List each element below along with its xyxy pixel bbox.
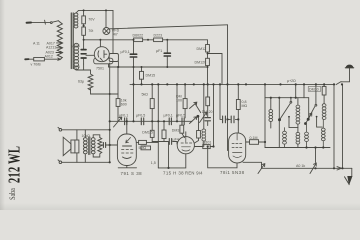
- wire between resistors: [83, 24, 85, 27]
- svg-text:1,5: 1,5: [151, 161, 156, 165]
- cap C4a plates: [125, 118, 127, 125]
- bus dot 7: [193, 83, 195, 85]
- wire down right corner: [351, 168, 353, 176]
- wire y98 corner down: [308, 98, 310, 118]
- coil LC2 loops: [305, 125, 309, 148]
- coil LC lower loops: [296, 132, 300, 144]
- heater line end vertical: [112, 10, 114, 53]
- svg-text:DM15: DM15: [146, 74, 156, 78]
- svg-text:DM12: DM12: [197, 47, 207, 51]
- osc coil L3 loops: [202, 129, 206, 141]
- node dot dm branch: [207, 53, 209, 55]
- wire tube to y67: [109, 62, 119, 68]
- node dot cathode loop: [167, 167, 169, 169]
- pot wiper v3: [258, 164, 265, 174]
- wire v1 gridbox down: [157, 84, 159, 167]
- bus dot 12: [226, 83, 228, 85]
- grid cap row v3 wire: [220, 84, 238, 119]
- wire resistor to cap stack: [83, 35, 85, 49]
- node dot heater line b: [105, 9, 107, 11]
- band switch contact a: [290, 101, 292, 103]
- SECTION: labels B+: [121, 34, 207, 78]
- node dot pot x342: [341, 167, 343, 169]
- wire drop to resistors: [83, 10, 85, 16]
- wire DM120 down to bus: [207, 66, 209, 85]
- anode stopper box: [203, 145, 210, 149]
- cap C5 wire: [152, 139, 177, 144]
- speaker bottom terminal: [59, 161, 62, 164]
- cap C1 plates: [130, 54, 136, 57]
- speaker body divider: [74, 140, 76, 153]
- svg-text:Saba: Saba: [7, 188, 17, 200]
- bus dot 19: [315, 83, 317, 85]
- SECTION: right labels: [220, 79, 321, 175]
- rectifier inner electrodes: [98, 51, 107, 61]
- transformer core lines: [89, 137, 90, 155]
- wire bottom winding stub: [76, 64, 90, 74]
- svg-text:µF03: µF03: [72, 44, 80, 48]
- tube V3 cathode line: [243, 162, 262, 168]
- svg-text:DM10: DM10: [309, 88, 319, 92]
- cap C6b plates: [182, 118, 184, 125]
- resistor box x208: [206, 97, 210, 106]
- speaker wiring: [77, 130, 100, 163]
- pot wiper right: [310, 163, 316, 173]
- node dot v2 anode: [212, 145, 214, 147]
- trunk wire x110: [109, 63, 111, 162]
- node dot y98 a: [278, 97, 280, 99]
- svg-text:µF0,5: µF0,5: [136, 114, 145, 118]
- resistor D223: [154, 38, 163, 42]
- svg-text:REN 9i4: REN 9i4: [185, 170, 203, 175]
- cap C2 drop wire: [166, 40, 168, 67]
- tap terminal dash: [25, 58, 28, 60]
- svg-text:A0 1k: A0 1k: [296, 164, 305, 168]
- tube V3 inner top wire: [236, 133, 238, 140]
- svg-text:70V: 70V: [88, 18, 95, 22]
- bus dot 4: [166, 83, 168, 85]
- switch link dot a: [288, 116, 290, 118]
- svg-text:MΩ: MΩ: [242, 104, 248, 108]
- choke L2 (zigzag): [88, 74, 93, 90]
- SECTION: labels power: [31, 18, 120, 84]
- node dot y67 tube: [117, 66, 119, 68]
- node dot y67 d: [166, 66, 168, 68]
- svg-text:µF0,5: µF0,5: [176, 114, 185, 118]
- coil LD2 loops: [321, 120, 325, 148]
- band switch stub a: [290, 98, 292, 102]
- svg-text:A012: A012: [45, 54, 53, 58]
- antenna coil L1 primary (zigzag): [57, 22, 62, 60]
- svg-text:µ+2Ω: µ+2Ω: [287, 79, 296, 83]
- anode grid resistor box: [197, 131, 201, 139]
- resistor DM120 box: [206, 58, 210, 65]
- wire winding to heater line: [76, 10, 113, 13]
- grid resistor drop: [182, 125, 185, 138]
- cathode bypass drop: [168, 142, 170, 168]
- wire choke bottom to trunk: [91, 89, 119, 95]
- coil LC loops: [296, 105, 300, 124]
- svg-text:DM120: DM120: [195, 61, 207, 65]
- band switch blade c: [309, 106, 315, 118]
- osc coil bottom wire: [203, 141, 205, 147]
- dial lamp: [103, 28, 110, 35]
- svg-text:DM3: DM3: [172, 129, 180, 133]
- svg-text:µF0,1: µF0,1: [164, 114, 173, 118]
- node dot row2 a: [151, 120, 153, 122]
- node dot resistor mid: [83, 25, 85, 27]
- resistor DM10 drop: [323, 84, 325, 103]
- node dot v1 grid: [126, 120, 128, 122]
- direction arrow on line: [337, 167, 342, 170]
- svg-text:10kΩ: 10kΩ: [82, 134, 91, 138]
- osc coil drop: [203, 84, 205, 129]
- node dot heater line a: [83, 9, 85, 11]
- tube V1 top cap arrow: [126, 138, 131, 143]
- rectifier base tray: [94, 58, 113, 64]
- svg-text:µΩ01: µΩ01: [203, 140, 212, 144]
- dial lamp cross: [104, 29, 109, 34]
- tap arrow A017: [57, 42, 63, 44]
- svg-text:DM1,5: DM1,5: [142, 131, 153, 135]
- cap C7a plates: [223, 116, 226, 123]
- bus dot 3: [151, 83, 153, 85]
- svg-text:A1213: A1213: [46, 46, 56, 50]
- bus dot 3b: [157, 83, 159, 85]
- svg-text:791 S 38: 791 S 38: [121, 171, 143, 176]
- band switch vertical a: [278, 98, 280, 148]
- node dot trunk spk top: [109, 129, 111, 131]
- coil LA wire: [270, 98, 272, 128]
- resistor 5k drop: [151, 84, 153, 121]
- main bus (chassis): [130, 83, 335, 85]
- tube V1 grid wire top: [126, 121, 128, 134]
- svg-text:A 11: A 11: [33, 41, 40, 45]
- coil LD loops: [322, 104, 326, 120]
- anode grid resistor wire: [195, 118, 199, 144]
- svg-text:70t: 70t: [88, 29, 93, 33]
- resistor 10k/600 box: [116, 99, 120, 107]
- resistor 5k lower drop: [151, 121, 153, 141]
- resistor DM15 box: [140, 71, 144, 79]
- resistor R heater 2: [82, 27, 86, 35]
- band switch blade mid: [195, 104, 201, 113]
- resistor R heater 1: [82, 16, 86, 24]
- svg-text:78i1 5N38: 78i1 5N38: [220, 170, 245, 175]
- tube V1 inner grid dashes: [122, 150, 134, 154]
- node dot v3 grid: [237, 118, 239, 120]
- coil LB2 loops: [283, 128, 287, 148]
- node dot row x134: [132, 120, 134, 122]
- svg-text:5MΩ: 5MΩ: [139, 146, 147, 150]
- node dot y98 d: [290, 97, 292, 99]
- cap C6a plates: [169, 118, 171, 125]
- resistor DM1.5 drop: [163, 121, 165, 130]
- cap C1 drop wire: [133, 40, 135, 85]
- grid resistor box: [180, 125, 184, 133]
- tube V2 grid wire: [185, 132, 187, 137]
- svg-text:5kΩ: 5kΩ: [142, 93, 149, 97]
- tube V2 envelope: [177, 137, 194, 154]
- bus dot 13: [237, 83, 239, 85]
- tube V2 anode wire: [194, 146, 202, 148]
- node dot trunk spk bot: [109, 161, 111, 163]
- svg-text:600: 600: [121, 103, 127, 107]
- wire bus to row2 x177: [176, 84, 178, 121]
- rectifier tube U1 envelope: [94, 47, 109, 62]
- band switch blob mid: [197, 115, 200, 118]
- grid box lower: [141, 146, 151, 150]
- transformer secondary bottom winding: [74, 43, 78, 69]
- svg-text:100: 100: [176, 98, 182, 102]
- band switch blob c: [307, 118, 310, 121]
- node dot y40 a: [133, 39, 135, 41]
- switch link dot c: [316, 116, 318, 118]
- node dot coil line c: [322, 146, 324, 148]
- cap stack wire: [83, 59, 85, 64]
- wire bus drop x315: [315, 84, 317, 104]
- node dot choke trunk: [109, 93, 111, 95]
- band switch blade a: [280, 103, 290, 118]
- wire x213 from bus: [213, 84, 215, 146]
- resistor DM12 box: [206, 45, 210, 53]
- cap C7b plates: [231, 116, 234, 123]
- node dot row v3 mid: [226, 118, 228, 120]
- node dot v3 screen: [264, 141, 266, 143]
- bus dot 9: [207, 83, 209, 85]
- osc switch arrow: [200, 112, 207, 122]
- band switch arrow b: [305, 113, 312, 125]
- tube V3 inner dashes: [232, 144, 242, 158]
- speaker cone: [63, 137, 71, 155]
- B+ rail from lamp: [110, 25, 228, 29]
- rectifier side box: [109, 54, 118, 62]
- bus dot 15: [264, 83, 266, 85]
- output tube V1 envelope: [117, 134, 136, 166]
- bus dot 18: [303, 83, 305, 85]
- svg-text:D6022: D6022: [133, 34, 144, 38]
- bus dot 10: [212, 83, 214, 85]
- wire bus drop x304: [303, 84, 305, 97]
- output transformer primary: [83, 130, 87, 163]
- wire box to x213: [210, 146, 213, 148]
- resistor 0.8M box: [236, 100, 240, 110]
- node dot y67 e: [207, 66, 209, 68]
- transformer secondary top winding: [74, 13, 78, 28]
- svg-text:DM120: DM120: [202, 110, 213, 114]
- speaker top terminal: [59, 129, 62, 132]
- resistor D6022: [134, 38, 143, 42]
- antenna switch tick: [44, 20, 47, 24]
- tube V0 left lead: [86, 54, 96, 56]
- decoupling line y40: [84, 40, 208, 45]
- bus dot 8: [203, 83, 205, 85]
- cap x208 plates: [205, 118, 210, 121]
- bus dot 17: [295, 83, 297, 85]
- node dot pot x315: [314, 167, 316, 169]
- node dot y40 b: [147, 39, 149, 41]
- svg-text:µF0,1: µF0,1: [119, 114, 128, 118]
- bus dot 11: [219, 83, 221, 85]
- resistor DM chain x208 below bus: [207, 84, 209, 125]
- band switch blob b: [304, 122, 307, 125]
- winding tertiary zigzag: [98, 138, 102, 154]
- resistor 0.8M drop: [237, 84, 239, 132]
- tube V3 screen box: [246, 141, 265, 143]
- wire resistor drop x118: [117, 67, 119, 99]
- bus dot 1: [132, 83, 134, 85]
- coil bottoms line: [284, 147, 330, 149]
- speaker bottom line: [62, 161, 110, 163]
- svg-text:7501: 7501: [96, 67, 104, 71]
- big down arrow: [347, 176, 352, 186]
- wire bus to row x134: [133, 84, 135, 121]
- antenna switch contact: [50, 22, 52, 24]
- SECTION: labels if stage: [142, 93, 213, 176]
- node dot y40 anode: [99, 39, 101, 41]
- cap C4b plates: [141, 118, 143, 125]
- coil LC wire: [297, 98, 299, 148]
- grid wiper arrow b: [190, 117, 197, 124]
- cap stack plates: [81, 50, 86, 58]
- node dot pot x334: [333, 167, 335, 169]
- wire x265 down: [264, 98, 266, 148]
- bus dot 5: [176, 83, 178, 85]
- bus dot 14: [245, 83, 247, 85]
- trunk right x334: [333, 84, 335, 168]
- svg-text:v 70/B: v 70/B: [31, 63, 42, 67]
- node dot trunk row: [109, 120, 111, 122]
- bus dot 22: [341, 83, 343, 85]
- wire DM12 to DM120: [207, 52, 209, 58]
- wire drop to lamp: [105, 10, 107, 27]
- node dot row2 ab: [157, 120, 159, 122]
- line y67 screen feed: [109, 66, 208, 68]
- resistor DM100 box: [183, 99, 187, 109]
- anode feed drop: [99, 40, 101, 47]
- svg-text:µF4: µF4: [173, 138, 179, 142]
- aerial earth symbol: [345, 67, 353, 69]
- bus dot 16: [279, 83, 281, 85]
- resistor tap box: [34, 58, 45, 61]
- bus dot 21: [333, 83, 335, 85]
- antenna input wire: [27, 22, 50, 24]
- speaker top tick: [58, 127, 60, 128]
- node dot y40 start: [83, 39, 85, 41]
- tube V2 inner: [181, 137, 192, 151]
- bus dot 20: [323, 83, 325, 85]
- node dot y40 c: [166, 39, 168, 41]
- coil bottoms left wire: [265, 147, 284, 149]
- resistor DM10 box: [322, 86, 326, 95]
- tap arrow A1213: [57, 47, 63, 49]
- svg-text:µF8: µF8: [74, 65, 80, 69]
- output transformer secondary: [91, 138, 95, 154]
- bus dot 6: [184, 83, 186, 85]
- junction dots bus: [109, 83, 344, 169]
- box DM10 label: [308, 87, 321, 92]
- switch link wire a: [289, 117, 298, 128]
- node dot row2 c: [176, 120, 178, 122]
- branch wire to x222: [208, 54, 223, 85]
- resistor 5k box: [150, 99, 154, 109]
- svg-text:0,1M: 0,1M: [250, 136, 258, 140]
- node dot y67 a: [117, 66, 119, 68]
- tone cap to trunk: [100, 143, 110, 148]
- wire switch to coil: [59, 21, 60, 22]
- coil LA loops: [269, 109, 273, 121]
- junction dots top: [83, 9, 209, 95]
- cap C2 plates: [164, 53, 170, 56]
- resistor DM1.5 box: [162, 130, 166, 139]
- speaker bottom tick: [58, 160, 60, 161]
- coupling row 2 line: [152, 120, 192, 122]
- volume pot line: [262, 167, 352, 169]
- rail end drop x227: [227, 25, 229, 151]
- tap wire with resistor: [26, 58, 61, 60]
- node dot coil line a: [305, 146, 307, 148]
- bus dot 2: [140, 83, 142, 85]
- node dot y98 b: [295, 97, 297, 99]
- tube V3 envelope: [229, 133, 246, 163]
- coupling row line y121: [110, 120, 153, 122]
- node dot row2 b: [163, 120, 165, 122]
- node dot trunk anode: [109, 144, 111, 146]
- svg-text:µF0,1: µF0,1: [121, 50, 130, 54]
- antenna terminal dash: [27, 22, 31, 24]
- grid wiper arrow a: [190, 102, 197, 108]
- tube V1 grid cap box: [136, 141, 158, 143]
- resistor 5k lower box: [150, 130, 154, 137]
- pot wire from coils: [315, 148, 317, 163]
- bus switch tick: [336, 82, 341, 85]
- resistor DM100 drop: [184, 84, 186, 118]
- tube V1 anode stub: [110, 144, 118, 146]
- transformer core: [71, 13, 73, 69]
- svg-text:D223: D223: [154, 34, 163, 38]
- svg-text:715 H 38: 715 H 38: [163, 170, 184, 175]
- coil bank feed line: [265, 84, 309, 97]
- wire 10k bottom to node: [117, 106, 119, 121]
- SECTION: labels audio: [82, 99, 147, 177]
- tube V1 inner cathode: [123, 157, 132, 159]
- trunk right x342: [342, 84, 344, 168]
- band switch blob a: [278, 118, 281, 121]
- tap arrow A023: [56, 51, 63, 53]
- cap C5 plates: [169, 139, 171, 145]
- speaker coil body: [71, 140, 79, 153]
- tube V1 base line: [118, 166, 136, 168]
- tube V2 cathode loop: [158, 154, 186, 168]
- svg-text:4i7: 4i7: [113, 32, 118, 36]
- svg-text:µF1: µF1: [156, 49, 162, 53]
- node dot y67 c: [141, 66, 143, 68]
- svg-text:63µ: 63µ: [78, 80, 84, 84]
- band switch contact circle: [315, 104, 317, 106]
- resistor DM15 drop: [141, 67, 143, 84]
- wire bus drop x295: [295, 84, 297, 97]
- node dot y98 c: [270, 97, 272, 99]
- node dot coil line b: [314, 146, 316, 148]
- node dot y67 b: [133, 66, 135, 68]
- speaker top line: [62, 129, 110, 131]
- node dot anode junction: [207, 145, 209, 147]
- wire to aerial symbol: [341, 68, 350, 82]
- wire v2 anode to v3: [208, 147, 237, 168]
- svg-text:212 WL: 212 WL: [5, 146, 24, 183]
- switch link wire c: [317, 117, 323, 128]
- volume wiper arrow: [114, 117, 122, 127]
